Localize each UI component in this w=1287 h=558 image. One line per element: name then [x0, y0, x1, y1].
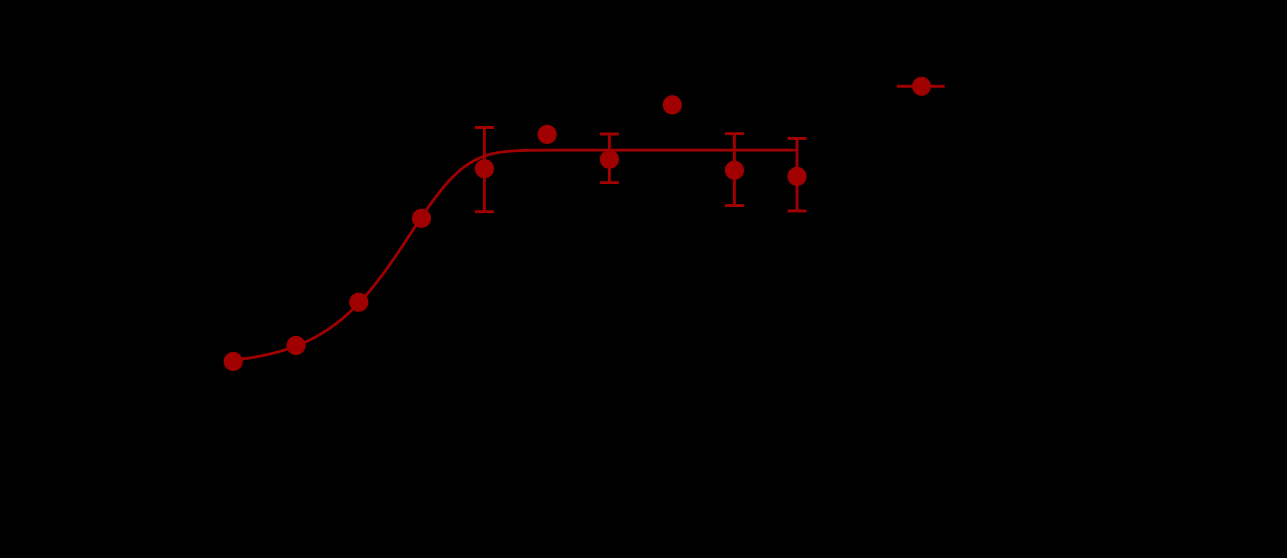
- legend sample marker: [912, 77, 931, 96]
- error bar for data point 5: [475, 128, 494, 212]
- data point 9: [725, 161, 744, 180]
- data point 4: [412, 209, 431, 228]
- error bar for data point 10: [788, 138, 807, 211]
- data point 2: [286, 336, 305, 355]
- data point 5: [475, 159, 494, 178]
- data point 7: [600, 150, 619, 169]
- legend sample line: [897, 85, 945, 88]
- data point 6: [538, 125, 557, 144]
- error bar for data point 9: [725, 134, 744, 206]
- data point 10: [787, 167, 806, 186]
- error bar for data point 7: [600, 134, 619, 183]
- data point 3: [349, 293, 368, 312]
- data point 8: [663, 95, 682, 114]
- data point 1: [224, 352, 243, 371]
- fitted sigmoid dose-response curve: [233, 150, 797, 360]
